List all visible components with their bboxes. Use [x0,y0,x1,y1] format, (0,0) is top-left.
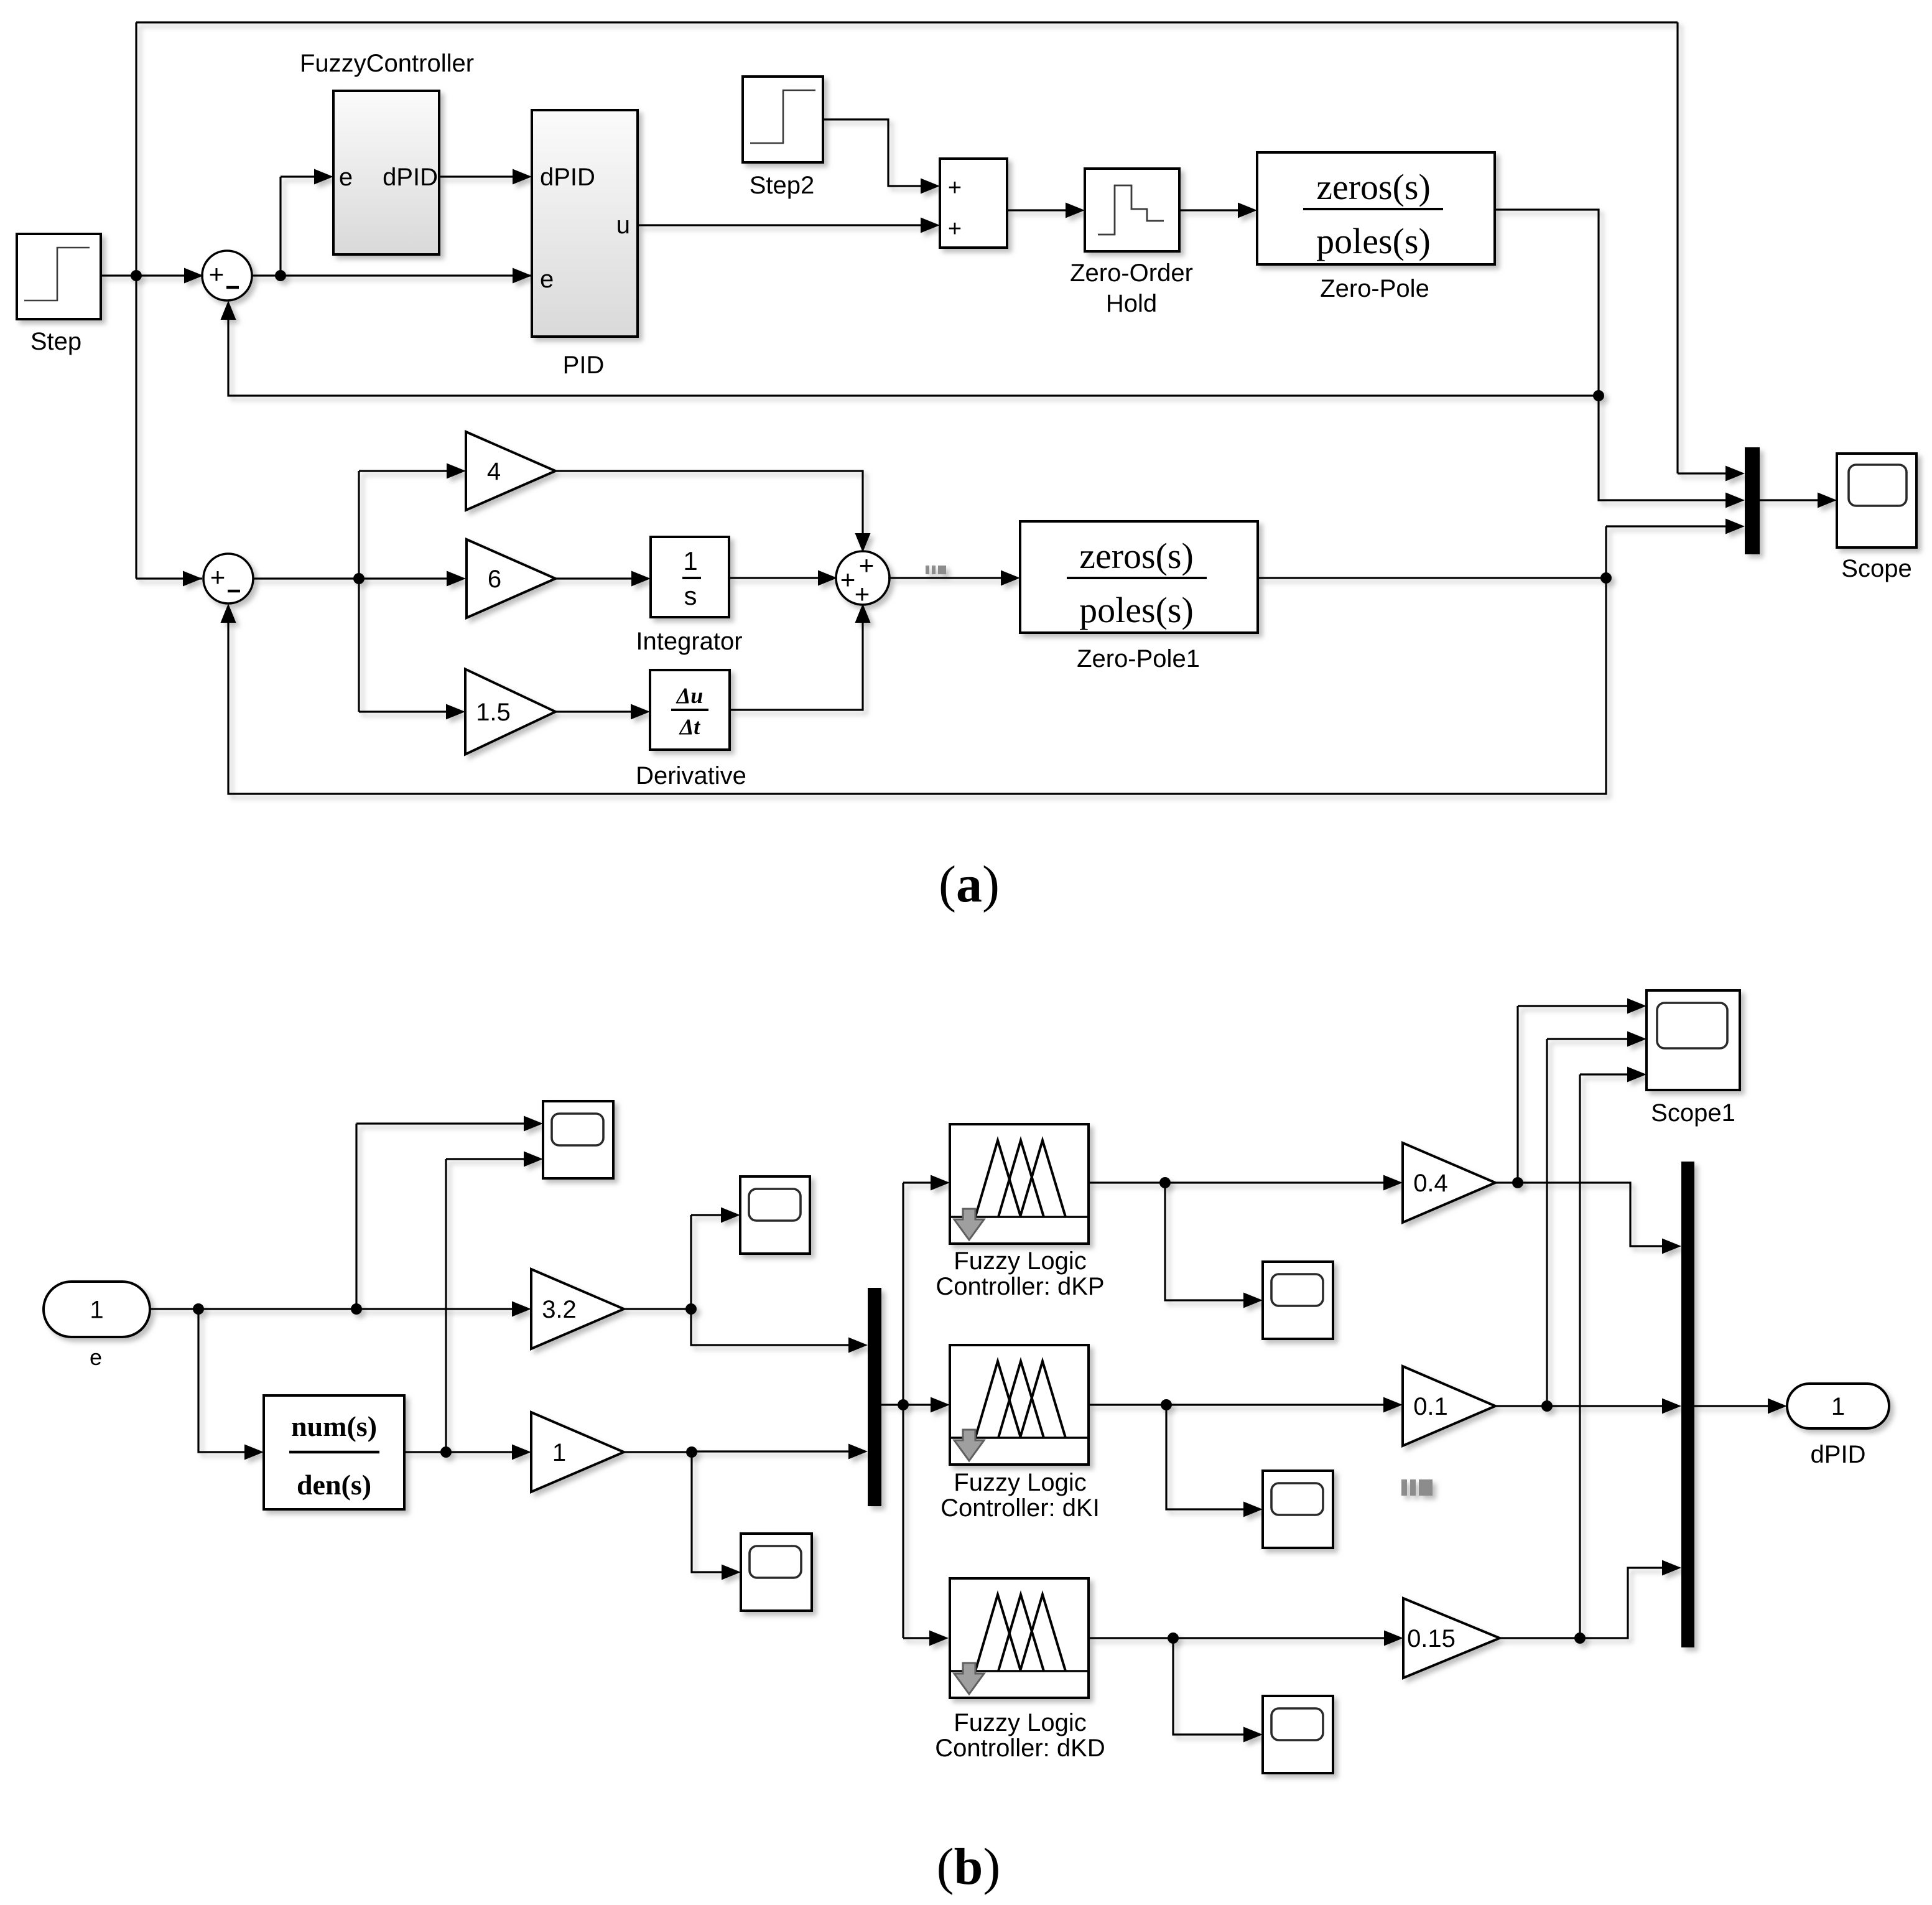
svg-text:+: + [948,216,962,242]
svg-text:+: + [859,551,875,580]
svg-text:0.1: 0.1 [1413,1393,1448,1420]
svg-text:dPID: dPID [540,164,595,191]
svg-text:+: + [855,579,870,608]
svg-text:Zero-Pole: Zero-Pole [1320,275,1429,302]
svg-text:zeros(s): zeros(s) [1316,167,1431,207]
svg-text:4: 4 [487,458,501,485]
svg-text:Integrator: Integrator [636,628,742,655]
svg-text:Derivative: Derivative [636,762,746,789]
svg-text:dPID: dPID [1811,1441,1866,1468]
svg-text:Step2: Step2 [750,172,815,199]
svg-text:Zero-Pole1: Zero-Pole1 [1077,645,1200,673]
svg-text:1: 1 [1831,1393,1845,1420]
svg-text:+: + [209,259,225,289]
svg-text:1: 1 [552,1439,566,1466]
svg-text:Fuzzy Logic: Fuzzy Logic [954,1469,1086,1496]
svg-text:1: 1 [90,1297,103,1324]
svg-text:6: 6 [488,566,501,593]
svg-text:Controller: dKP: Controller: dKP [936,1273,1104,1300]
svg-text:1.5: 1.5 [476,699,511,726]
svg-text:+: + [840,565,856,594]
svg-text:u: u [616,212,630,239]
svg-text:s: s [684,581,697,610]
svg-text:poles(s): poles(s) [1079,590,1194,630]
svg-text:Scope1: Scope1 [1651,1099,1735,1127]
svg-text:Δu: Δu [676,683,704,708]
svg-text:0.15: 0.15 [1407,1625,1456,1652]
svg-text:Δt: Δt [679,714,701,739]
svg-text:3.2: 3.2 [542,1296,577,1323]
svg-text:(b): (b) [937,1838,1001,1896]
svg-text:PID: PID [563,352,605,379]
svg-text:dPID: dPID [383,164,438,191]
svg-text:poles(s): poles(s) [1316,221,1431,261]
svg-text:(a): (a) [939,855,1000,913]
svg-text:Controller: dKI: Controller: dKI [940,1494,1100,1522]
svg-text:Scope: Scope [1841,555,1911,582]
svg-text:e: e [339,164,353,191]
svg-text:num(s): num(s) [291,1410,377,1442]
svg-text:FuzzyController: FuzzyController [300,50,474,77]
svg-text:Controller: dKD: Controller: dKD [935,1735,1105,1762]
svg-text:+: + [210,562,226,592]
svg-text:e: e [540,266,554,293]
svg-text:Zero-Order: Zero-Order [1070,259,1193,287]
svg-text:0.4: 0.4 [1413,1170,1448,1197]
svg-text:Fuzzy Logic: Fuzzy Logic [954,1709,1086,1736]
svg-text:+: + [948,175,962,201]
svg-text:Step: Step [30,328,81,355]
svg-text:Hold: Hold [1106,290,1157,317]
svg-text:den(s): den(s) [297,1469,371,1501]
svg-text:zeros(s): zeros(s) [1079,536,1194,576]
svg-text:Fuzzy Logic: Fuzzy Logic [954,1247,1086,1275]
svg-text:1: 1 [683,546,697,575]
svg-text:e: e [90,1344,102,1370]
